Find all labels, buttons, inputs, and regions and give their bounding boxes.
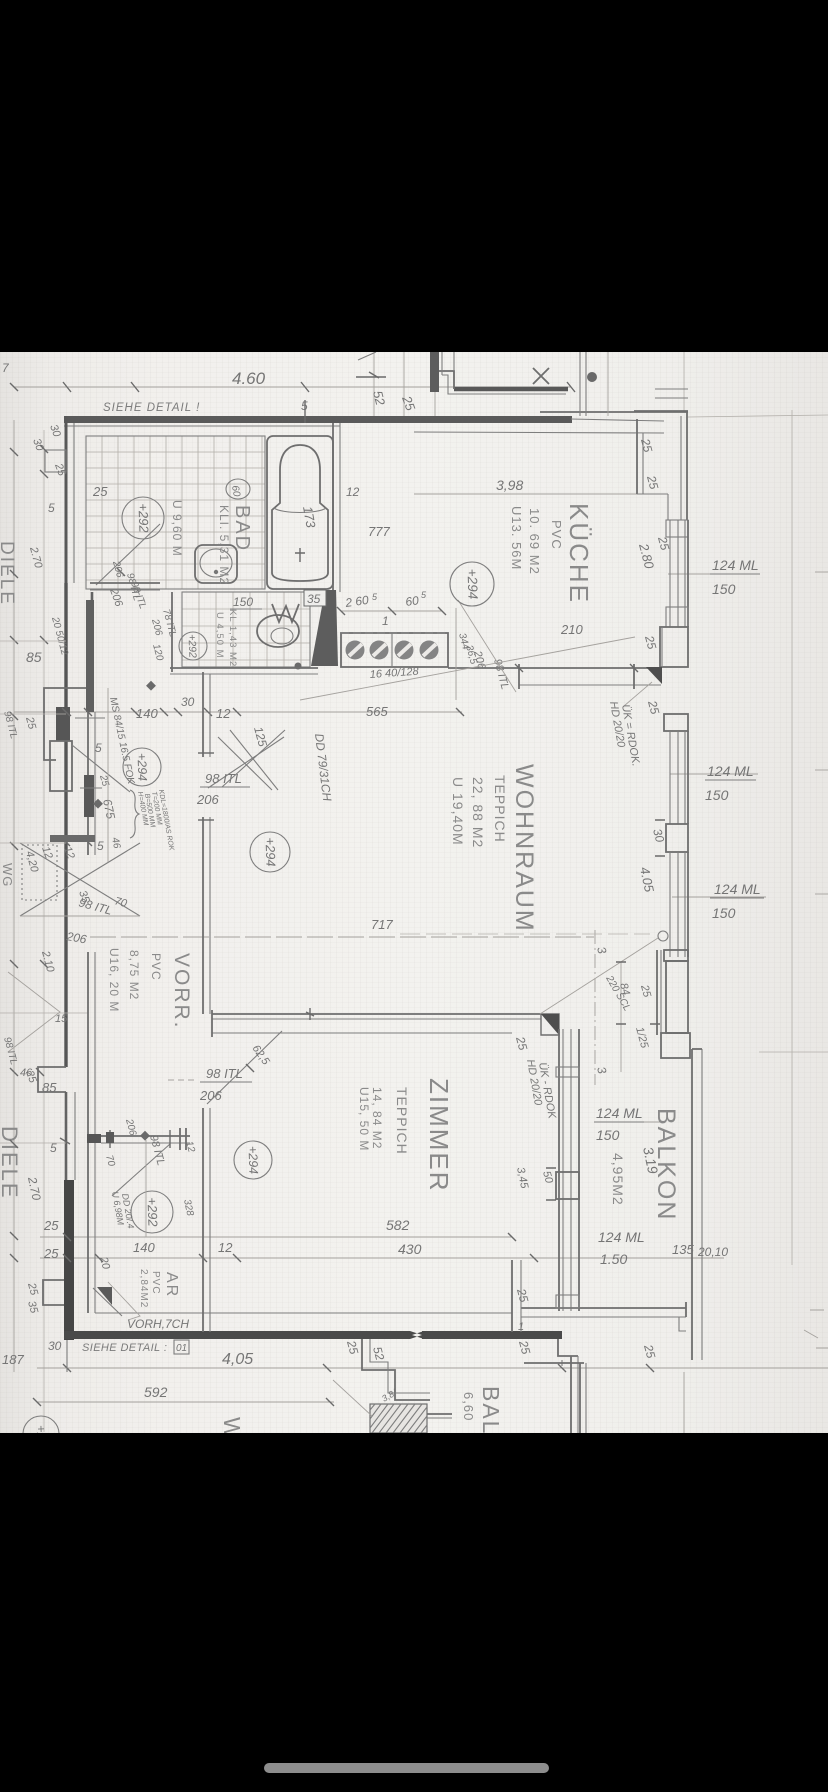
124 ML underline wohn1 bbox=[705, 779, 756, 781]
kitchen wall jamb x519 bbox=[518, 664, 520, 689]
svg-text:14, 84 M2: 14, 84 M2 bbox=[370, 1087, 384, 1149]
balcony rail line bbox=[427, 1413, 452, 1415]
svg-text:VORH,7CH: VORH,7CH bbox=[127, 1317, 189, 1331]
tick on swing bbox=[246, 1064, 254, 1072]
window3 outer bbox=[687, 852, 689, 957]
svg-text:565: 565 bbox=[366, 704, 388, 719]
svg-text:U13. 56M: U13. 56M bbox=[509, 506, 524, 570]
node diamond a bbox=[146, 681, 156, 691]
vorr west wall lower face2 bbox=[94, 952, 96, 1136]
window1 glazing lines bbox=[670, 520, 685, 627]
svg-text:12: 12 bbox=[216, 706, 231, 721]
svg-text:+294: +294 bbox=[262, 837, 278, 867]
step at y494 bbox=[637, 493, 668, 495]
tick on x374 line bbox=[369, 372, 379, 378]
horizontal leader y897 bbox=[672, 896, 766, 898]
svg-text:25: 25 bbox=[641, 1342, 658, 1360]
svg-text:PVC: PVC bbox=[149, 953, 163, 981]
vorr west wall lower bbox=[87, 952, 89, 1136]
balcony door leaf bbox=[666, 961, 688, 1033]
pier inner lines bbox=[661, 627, 663, 667]
svg-text:430: 430 bbox=[398, 1241, 422, 1257]
top structure thick band bbox=[454, 387, 568, 392]
vorr west wall upper dark bbox=[86, 600, 94, 712]
svg-text:U15, 50 M: U15, 50 M bbox=[357, 1087, 371, 1151]
svg-text:2.80: 2.80 bbox=[636, 541, 657, 571]
svg-text:KÜCHE: KÜCHE bbox=[564, 503, 594, 604]
stair vertical mid bbox=[453, 352, 455, 371]
svg-text:124 ML: 124 ML bbox=[712, 557, 759, 573]
door jambs vorr south bbox=[110, 1130, 170, 1148]
svg-text:U 9,60 M: U 9,60 M bbox=[170, 500, 184, 557]
node diamond b bbox=[93, 799, 103, 809]
svg-text:12: 12 bbox=[218, 1240, 233, 1255]
svg-text:3: 3 bbox=[594, 1065, 609, 1075]
wall end dark triangle bbox=[541, 1014, 559, 1035]
diamond node x146 bbox=[140, 1131, 150, 1141]
svg-text:85: 85 bbox=[26, 649, 42, 665]
toilet bowl inner bbox=[271, 628, 293, 644]
svg-text:30: 30 bbox=[48, 1339, 62, 1353]
ar west wall face2 bbox=[94, 1143, 96, 1313]
diagonal mark top left bbox=[358, 352, 376, 360]
svg-text:140: 140 bbox=[136, 706, 158, 721]
inner face below step bbox=[667, 494, 669, 520]
svg-text:98 ITL: 98 ITL bbox=[1, 1036, 19, 1066]
burner 4 bbox=[420, 641, 439, 660]
svg-text:4,05: 4,05 bbox=[222, 1351, 253, 1368]
leader diagonal to DD bbox=[300, 637, 635, 700]
top outer wall thick bbox=[64, 416, 572, 423]
door leaf rectangle bbox=[50, 741, 72, 791]
svg-text:3,8/: 3,8/ bbox=[380, 1387, 399, 1404]
door swing diagonal entrance bbox=[72, 745, 130, 792]
elevation circle ar +292 bbox=[131, 1191, 173, 1233]
small tick at x305 wall bbox=[304, 400, 306, 423]
brace curly bbox=[130, 790, 139, 838]
svg-text:717: 717 bbox=[371, 917, 393, 932]
faint left horizontal y712 bbox=[0, 713, 66, 715]
left margin second vertical bbox=[43, 430, 45, 1432]
door jamb mark lower bbox=[198, 819, 214, 821]
svg-text:25: 25 bbox=[43, 1246, 59, 1261]
faint left horizontal y1142 bbox=[0, 1142, 66, 1144]
burner 4 slash bbox=[423, 644, 436, 656]
svg-text:125: 125 bbox=[251, 725, 270, 748]
svg-text:15: 15 bbox=[55, 1013, 68, 1025]
balkon east wall face2 bbox=[701, 1049, 703, 1360]
svg-text:7: 7 bbox=[2, 361, 10, 375]
svg-text:120: 120 bbox=[150, 643, 165, 662]
window3 glazing lines bbox=[670, 852, 685, 957]
svg-text:675: 675 bbox=[100, 798, 118, 821]
zimmer east inner line bbox=[558, 1029, 560, 1311]
leader diagonal to hatch bbox=[333, 1380, 372, 1416]
leader diagonal from circle to corner bbox=[458, 600, 516, 692]
horizontal faint line y494 kitchen 3.98 bbox=[414, 493, 637, 495]
svg-text:30: 30 bbox=[650, 827, 667, 844]
dark node top bbox=[587, 372, 597, 382]
arrow left top bbox=[356, 376, 386, 378]
svg-text:173: 173 bbox=[300, 505, 319, 530]
balkon east wall cap bbox=[692, 1048, 702, 1050]
wc door swing X diagonal 2 bbox=[218, 737, 272, 790]
washbasin bbox=[195, 545, 237, 583]
horizontal top dim line 4.60 bbox=[14, 386, 571, 388]
svg-text:98 ITL: 98 ITL bbox=[205, 771, 242, 786]
svg-text:25: 25 bbox=[514, 1286, 531, 1304]
left wall inner face upper bbox=[73, 423, 75, 583]
vertical dim line x621 balcony bbox=[620, 962, 622, 1072]
vertical grid line far right bbox=[791, 410, 793, 1265]
ticks bottom dim bbox=[33, 1364, 654, 1406]
balcony below vertical double bbox=[579, 1363, 581, 1433]
window2 outer bbox=[687, 731, 689, 824]
svg-text:+294: +294 bbox=[246, 1146, 261, 1175]
top right short horizontal 2 bbox=[655, 388, 688, 390]
leader dashes bbox=[168, 1079, 198, 1081]
svg-text:140: 140 bbox=[133, 1240, 155, 1255]
stipple WG box bbox=[22, 845, 57, 900]
balcony door frame left line2 bbox=[660, 950, 662, 1035]
bottom wall break arrows bbox=[410, 1331, 424, 1339]
horizontal dim y1402 bottom 592 bbox=[37, 1401, 334, 1403]
horizontal dim line y712 bbox=[14, 711, 462, 713]
svg-text:DIELE: DIELE bbox=[0, 1126, 22, 1200]
balcony below vertical double2 bbox=[585, 1363, 587, 1433]
svg-text:1/25: 1/25 bbox=[633, 1026, 650, 1051]
svg-text:206: 206 bbox=[149, 617, 164, 637]
balcony rail line2 bbox=[427, 1417, 452, 1419]
home indicator bbox=[264, 1763, 549, 1773]
bottom-right vertical double 2 bbox=[577, 1356, 579, 1433]
svg-text:WG: WG bbox=[0, 863, 15, 887]
dim extension right of counter bbox=[455, 608, 457, 700]
entrance swing baseline bbox=[20, 915, 140, 917]
svg-text:+294: +294 bbox=[135, 753, 150, 782]
kitchen wall jamb x634 bbox=[633, 664, 635, 689]
pier dark triangle bbox=[646, 667, 662, 684]
horizontal leader y772 bbox=[670, 773, 758, 775]
svg-text:150: 150 bbox=[233, 595, 253, 609]
wc outline bbox=[182, 592, 310, 667]
svg-text:30: 30 bbox=[30, 437, 46, 453]
svg-text:+292: +292 bbox=[135, 503, 151, 534]
horizontal dim y1258 bbox=[40, 1257, 724, 1259]
bathtub outer bbox=[267, 436, 333, 589]
svg-text:8,75 M2: 8,75 M2 bbox=[127, 950, 141, 1000]
vertical stub below wall left bbox=[66, 1340, 68, 1372]
door swing diagonal vorr-wohn upper bbox=[222, 730, 285, 787]
svg-text:2.70: 2.70 bbox=[25, 1175, 44, 1202]
door swing diagonal zimmer bbox=[207, 1031, 282, 1104]
vertical line above top wall left bbox=[373, 352, 375, 419]
svg-text:124 ML: 124 ML bbox=[707, 763, 754, 779]
svg-text:5: 5 bbox=[421, 590, 427, 600]
wall right of bath inner bbox=[339, 423, 341, 592]
svg-text:50: 50 bbox=[540, 1170, 555, 1186]
svg-text:25: 25 bbox=[516, 1338, 533, 1356]
vertical dash-dot axis balcony door bbox=[594, 930, 596, 1085]
svg-text:2.10: 2.10 bbox=[39, 949, 57, 975]
window block top bbox=[556, 1067, 579, 1077]
dark triangle fill bbox=[541, 1014, 559, 1035]
bath door swing tick bbox=[117, 568, 125, 576]
vertical dim line x108 bbox=[107, 688, 109, 862]
svg-text:20,10: 20,10 bbox=[697, 1245, 728, 1259]
entrance big swing diagonal 2 bbox=[20, 843, 140, 916]
ticks balcony dims bbox=[616, 962, 660, 1024]
stair detail step inner bbox=[442, 375, 566, 394]
bath south wall lower face bbox=[90, 589, 160, 591]
dash right end y574 bbox=[815, 571, 828, 573]
tick at 5 bbox=[60, 1138, 70, 1144]
horizontal faint right of top wall bbox=[688, 415, 828, 417]
kitchen top wall lower face bbox=[414, 432, 664, 433]
left wall jog out bbox=[38, 1067, 66, 1092]
98 underline zimmer bbox=[200, 1081, 252, 1083]
small horizontal wall y842 bbox=[50, 835, 95, 842]
node x305 bbox=[301, 382, 309, 392]
right side small marks bbox=[804, 1310, 828, 1348]
svg-text:592: 592 bbox=[144, 1384, 168, 1400]
svg-text:U 4,50 M: U 4,50 M bbox=[214, 612, 225, 659]
vertical line above top wall right bbox=[434, 352, 436, 419]
svg-text:150: 150 bbox=[596, 1127, 620, 1143]
kitchen top wall double bbox=[540, 411, 688, 413]
svg-text:PVC: PVC bbox=[150, 1271, 161, 1295]
zimmer south wall y1307 bbox=[521, 1307, 686, 1309]
124 ML underline bbox=[710, 573, 760, 575]
svg-text:+292: +292 bbox=[144, 1197, 160, 1228]
horizontal dashed dim y937 bbox=[90, 936, 594, 938]
diagonal leader to node bbox=[540, 938, 658, 1014]
dark wall chunk right of wc bbox=[311, 590, 338, 666]
01 box bbox=[174, 1340, 189, 1354]
svg-text:5: 5 bbox=[97, 839, 104, 853]
svg-text:1: 1 bbox=[382, 614, 389, 628]
svg-text:124 ML: 124 ML bbox=[714, 881, 761, 897]
svg-text:210: 210 bbox=[560, 622, 583, 637]
wc bottom wall double bbox=[170, 667, 318, 669]
svg-text:3: 3 bbox=[594, 945, 609, 955]
svg-text:+2.: +2. bbox=[34, 1425, 49, 1433]
dim line vertical x146 bbox=[145, 1140, 147, 1237]
svg-text:52: 52 bbox=[370, 389, 388, 407]
leader to HD text bbox=[624, 682, 652, 706]
svg-text:4.05: 4.05 bbox=[637, 866, 657, 895]
left outer wall upper bbox=[65, 416, 68, 583]
balcony below horizontal bbox=[524, 1362, 584, 1364]
dash right end y772 bbox=[815, 769, 828, 771]
svg-text:62,5: 62,5 bbox=[250, 1043, 273, 1068]
wc tile grid bbox=[182, 592, 310, 667]
extra left ticks a bbox=[10, 636, 48, 644]
svg-text:PVC: PVC bbox=[549, 520, 564, 550]
door swing diagonal vorr-wohn lower bbox=[230, 730, 278, 790]
bath door swing diagonal bbox=[96, 524, 160, 585]
ar west wall bbox=[87, 1143, 89, 1313]
counter top dashed edge bbox=[341, 632, 448, 634]
tick x67 bbox=[63, 382, 71, 392]
tick x571 bbox=[567, 382, 575, 392]
pier ticks bbox=[655, 820, 665, 856]
right wall outer vertical upper 2 bbox=[680, 416, 682, 520]
hatched pier bbox=[370, 1404, 427, 1433]
svg-text:25: 25 bbox=[43, 1218, 59, 1233]
burner 2 bbox=[370, 641, 389, 660]
ar door swing bbox=[93, 1288, 122, 1316]
svg-text:AR: AR bbox=[163, 1272, 180, 1298]
svg-text:25: 25 bbox=[644, 473, 661, 491]
bathtub inner line 2 bbox=[274, 508, 326, 513]
bottom outer wall thick right bbox=[422, 1331, 562, 1339]
vorr-wohn wall upper face2 bbox=[209, 674, 211, 757]
svg-text:5: 5 bbox=[50, 1141, 57, 1155]
svg-text:3,45: 3,45 bbox=[514, 1166, 530, 1190]
washbasin inner bowl bbox=[200, 549, 232, 577]
toilet bowl outer bbox=[257, 615, 299, 647]
vorr south wall left block bbox=[87, 1134, 101, 1143]
vorr south door dark square bbox=[106, 1132, 114, 1143]
svg-text:124 ML: 124 ML bbox=[596, 1105, 643, 1121]
left outer wall lower bbox=[65, 1092, 68, 1180]
zimmer south wall lower face bbox=[521, 1316, 686, 1318]
bottom wall inner face bbox=[95, 1312, 512, 1314]
right corner step bbox=[685, 1302, 687, 1317]
window1 block top bbox=[666, 520, 688, 537]
svg-text:777: 777 bbox=[368, 524, 390, 539]
zimmer north wall left jamb bbox=[211, 1010, 213, 1037]
entrance big swing diagonal 1 bbox=[20, 843, 140, 916]
zimmer east window outer bbox=[578, 1029, 580, 1311]
counter dim line bbox=[341, 610, 442, 612]
counter dim ticks bbox=[337, 607, 446, 615]
svg-text:VORR.: VORR. bbox=[170, 953, 193, 1030]
wall right of bath (tub niche west) bbox=[332, 423, 334, 592]
horizontal dashed y934 bbox=[400, 933, 650, 935]
svg-text:KL 1,43 M2: KL 1,43 M2 bbox=[227, 609, 238, 667]
wc left wall double bbox=[171, 592, 173, 672]
124 underline wohn2 bbox=[710, 897, 764, 899]
washbasin drain bbox=[214, 570, 218, 574]
wc door swing X diagonal 1 bbox=[208, 737, 284, 788]
ticks dim rows bottom bbox=[63, 1233, 538, 1262]
entrance jog horizontal bbox=[44, 688, 92, 707]
svg-text:25: 25 bbox=[642, 633, 659, 651]
svg-text:206: 206 bbox=[123, 1117, 138, 1137]
ar door leader bbox=[108, 1282, 140, 1320]
svg-text:25: 25 bbox=[638, 983, 653, 1000]
svg-text:150: 150 bbox=[712, 581, 736, 597]
jog rect in south wall bbox=[556, 1295, 579, 1308]
svg-text:60: 60 bbox=[229, 485, 242, 498]
burner 3 bbox=[395, 641, 414, 660]
svg-text:22, 88 M2: 22, 88 M2 bbox=[470, 777, 486, 848]
vertical line above top wall mid bbox=[403, 352, 405, 419]
svg-text:25: 25 bbox=[645, 698, 662, 716]
tub center tick bbox=[295, 548, 305, 562]
svg-text:25: 25 bbox=[399, 393, 419, 413]
svg-text:2,84M2: 2,84M2 bbox=[138, 1269, 149, 1308]
svg-text:25: 25 bbox=[97, 773, 111, 788]
vorr south wall lower face bbox=[101, 1142, 190, 1144]
top right short horizontals bbox=[655, 397, 688, 399]
svg-text:12: 12 bbox=[61, 845, 76, 861]
window1 outer line bbox=[687, 520, 689, 627]
svg-text:4,95M2: 4,95M2 bbox=[610, 1153, 626, 1206]
window pier square bbox=[556, 1172, 579, 1199]
svg-text:4.60: 4.60 bbox=[232, 369, 266, 388]
svg-text:98 ITL: 98 ITL bbox=[77, 895, 113, 917]
svg-text:12: 12 bbox=[39, 845, 54, 861]
stair detail step polyline bbox=[430, 352, 439, 392]
svg-text:98 ITL: 98 ITL bbox=[124, 572, 142, 602]
svg-text:25: 25 bbox=[344, 1338, 361, 1356]
svg-text:206: 206 bbox=[196, 792, 219, 807]
left outer wall bottom thick bbox=[64, 1180, 74, 1340]
zimmer sw corner vertical bbox=[511, 1260, 513, 1332]
vorr-wohn wall lower face2 bbox=[209, 817, 211, 1014]
burner 1 slash bbox=[349, 644, 362, 656]
svg-text:46: 46 bbox=[109, 836, 122, 850]
dark wall piece x84 bbox=[84, 775, 94, 817]
svg-text:W: W bbox=[219, 1417, 245, 1433]
svg-text:70: 70 bbox=[103, 1154, 117, 1168]
right wall outer vertical upper bbox=[686, 411, 688, 520]
wc elevation circle bbox=[179, 632, 207, 660]
white 35 box on dark chunk bbox=[304, 590, 326, 606]
svg-text:DD 79/31CH: DD 79/31CH bbox=[312, 733, 334, 803]
wc node dot bbox=[295, 663, 302, 670]
svg-text:25: 25 bbox=[638, 436, 655, 454]
pier square between windows bbox=[666, 824, 688, 852]
kitchen south wall lower bbox=[519, 684, 661, 686]
vorr-wohn wall lower bbox=[202, 817, 204, 1014]
124 underline balkon bbox=[594, 1121, 644, 1123]
left door swing triangle lower bbox=[8, 972, 60, 1052]
balcony below: partition verticals bbox=[362, 1339, 430, 1400]
vorr south wall segment bbox=[101, 1135, 190, 1137]
svg-text:206: 206 bbox=[64, 929, 87, 946]
svg-text:52: 52 bbox=[370, 1345, 387, 1362]
svg-text:TEPPICH: TEPPICH bbox=[492, 775, 508, 843]
bath room outline bbox=[86, 436, 265, 589]
horizontal faint line y574 kueche leader bbox=[668, 573, 760, 575]
svg-text:25: 25 bbox=[23, 715, 38, 732]
top right vertical single bbox=[607, 352, 609, 416]
top wall second face bbox=[64, 425, 340, 427]
vorr west wall mid bbox=[87, 712, 89, 855]
svg-text:25: 25 bbox=[513, 1034, 530, 1052]
window2 glazing lines bbox=[670, 731, 685, 824]
svg-text:2 60: 2 60 bbox=[343, 593, 369, 610]
zimmer east window lines bbox=[563, 1029, 571, 1311]
svg-text:10. 69 M2: 10. 69 M2 bbox=[527, 508, 542, 575]
vorr south right jamb lines bbox=[180, 1128, 186, 1150]
burner 1 bbox=[346, 641, 365, 660]
svg-text:85: 85 bbox=[42, 1080, 57, 1095]
svg-text:12: 12 bbox=[346, 485, 360, 499]
svg-text:98 ITL: 98 ITL bbox=[1, 710, 19, 740]
svg-text:BALK: BALK bbox=[478, 1386, 504, 1433]
balcony door top cap bbox=[664, 950, 688, 961]
elevation circle kueche +294 bbox=[450, 562, 494, 606]
bottom outer wall thick left bbox=[64, 1331, 410, 1339]
svg-text:25: 25 bbox=[25, 1281, 40, 1298]
svg-text:150: 150 bbox=[712, 905, 736, 921]
door swing diagonal vorr-zimmer door bbox=[112, 1144, 170, 1196]
